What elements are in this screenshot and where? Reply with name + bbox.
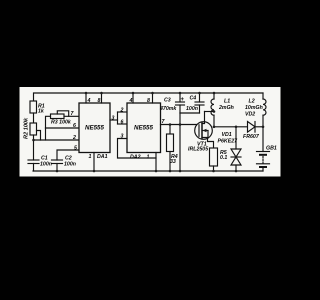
wire R2 bottom to C1 (33, 135, 35, 160)
svg-text:10mGh: 10mGh (245, 105, 263, 111)
wire pin8 DA1 (101, 93, 103, 103)
IC DA1 NE555 (79, 103, 110, 153)
svg-text:L1: L1 (224, 99, 230, 105)
svg-text:100n: 100n (64, 162, 76, 168)
resistor R2 (30, 123, 37, 135)
wire drain to L1 (205, 111, 215, 113)
wire pin6 DA1 (46, 127, 80, 129)
svg-text:2: 2 (72, 135, 76, 141)
wire top rail (34, 93, 264, 101)
wire pin7 DA1 (64, 115, 79, 117)
battery GB1 (262, 127, 264, 152)
svg-text:6: 6 (73, 123, 76, 129)
wire pin3 DA2 step (118, 139, 157, 159)
svg-text:2: 2 (120, 108, 124, 114)
svg-text:GB1: GB1 (266, 146, 277, 152)
svg-text:3: 3 (112, 116, 115, 122)
junction dots (32, 92, 264, 173)
svg-text:R3 100k: R3 100k (51, 120, 72, 126)
transistor VT1 IRL2505 (195, 122, 213, 140)
svg-text:1: 1 (89, 154, 92, 160)
wire pin4 DA2 (132, 93, 134, 103)
svg-text:100n: 100n (186, 106, 198, 112)
wire R3 wiper (57, 111, 68, 117)
wire pin1 DA1 (93, 153, 95, 172)
svg-text:2mGh: 2mGh (218, 105, 234, 111)
svg-text:C3: C3 (164, 98, 171, 104)
svg-text:33: 33 (170, 159, 176, 165)
resistor R3 (51, 114, 65, 119)
resistor R4 (169, 125, 171, 135)
svg-text:4: 4 (129, 98, 133, 104)
svg-text:+: + (181, 97, 185, 103)
svg-text:L2: L2 (249, 99, 255, 105)
svg-text:NE555: NE555 (85, 125, 104, 132)
resistor R5 (210, 148, 218, 166)
wire pin7 DA2 gate line (161, 124, 200, 126)
wire pin8 DA2 (152, 93, 154, 103)
wire DA1 pin3 to DA2 (110, 119, 118, 121)
diode VD2 FR607 (248, 122, 256, 133)
capacitor C1 (28, 159, 39, 161)
wire pin6-pin2 vertical (45, 128, 47, 140)
svg-text:6: 6 (121, 120, 124, 126)
capacitor C2 (52, 159, 63, 161)
wire bottom rail (33, 170, 263, 172)
svg-text:C4: C4 (190, 96, 197, 102)
svg-text:DA1: DA1 (97, 154, 108, 160)
wire R2 tap (37, 131, 41, 141)
svg-text:8: 8 (147, 98, 150, 104)
IC DA2 NE555 (127, 103, 161, 153)
wire R3 left lead (46, 116, 51, 128)
svg-text:VD1: VD1 (222, 132, 232, 138)
wire C3 to ground vertical (179, 113, 181, 171)
inductor L1 (213, 93, 215, 99)
svg-text:P6KE27: P6KE27 (218, 139, 239, 145)
svg-text:8: 8 (98, 98, 101, 104)
svg-text:R2 100k: R2 100k (24, 117, 30, 139)
svg-text:5: 5 (74, 146, 77, 152)
TVS VD1 P6KE27 (235, 127, 237, 149)
capacitor C3 (179, 93, 181, 102)
svg-text:NE555: NE555 (134, 125, 153, 132)
svg-text:IRL2505: IRL2505 (188, 147, 208, 153)
svg-text:3: 3 (121, 134, 124, 140)
labels (24, 96, 277, 168)
wire pin4 DA1 (85, 93, 87, 103)
svg-text:100n: 100n (40, 162, 52, 168)
transistor VT1 arrowhead (203, 129, 207, 133)
wire C3-C4 bottom link (180, 112, 200, 114)
wire pin5 DA1 (57, 150, 79, 160)
svg-text:470mk: 470mk (159, 106, 177, 112)
resistor R1 (30, 101, 37, 113)
wire pin2 DA1 (34, 139, 80, 141)
wire pin1 DA2 (155, 153, 157, 172)
wire drain node to diode (214, 126, 248, 128)
capacitor C4 (199, 93, 201, 102)
inductor L2 (262, 93, 264, 99)
wire R1-R2 (33, 113, 35, 123)
page (20, 87, 281, 177)
svg-text:DA2: DA2 (130, 155, 141, 161)
svg-text:4: 4 (87, 98, 91, 104)
svg-text:0.1: 0.1 (220, 155, 227, 161)
svg-text:VD2: VD2 (245, 112, 255, 118)
svg-text:FR607: FR607 (243, 134, 260, 140)
svg-text:1: 1 (147, 155, 150, 161)
